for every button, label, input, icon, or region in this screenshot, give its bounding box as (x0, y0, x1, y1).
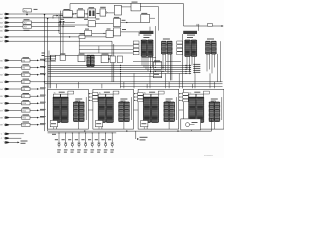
svg-text:nnnnnnnn: nnnnnnnn (204, 155, 213, 157)
